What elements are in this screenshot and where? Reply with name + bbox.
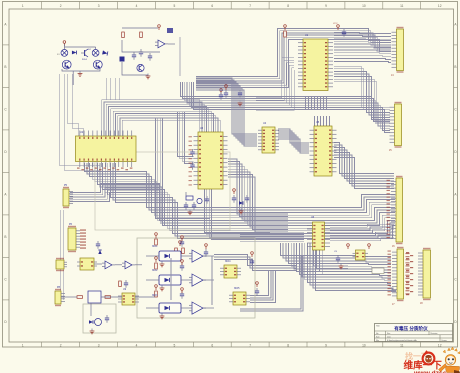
wire bus U3 bottom to central band [205,189,270,239]
connector J5 (right) [390,102,402,148]
group box around opto rows [137,238,255,318]
IC U2 pin labels below [77,168,132,171]
svg-text:3: 3 [98,343,100,347]
U3 left pin name labels [189,136,192,185]
driver row after relay K1 (gates G1 G2) [94,241,142,269]
svg-text:ISO4: ISO4 [225,260,231,263]
wire bus U5 right pins east then south to J6 top pins [334,143,394,189]
svg-text:8: 8 [287,4,289,8]
crystal Y1 with caps [184,192,209,215]
wire bus U6 left pins west [240,232,304,242]
opto U11 [229,292,250,305]
wire bus opto row outputs east joining J7 band [214,255,296,271]
connector P5 (left, upper) [63,187,73,208]
component reference text [57,34,320,297]
wire bus band y77-87 corner up at x277-298 over U1 top into J4 fan [196,29,391,88]
connector J7 (right lower) [388,247,404,301]
small part U12 (near J7) [353,250,369,260]
svg-text:Drawn: Drawn [442,340,447,342]
opto U10 [220,265,241,278]
wire bus U3 right lower pins east then south to central band [228,159,288,232]
wire bus from connector P5 east joining central band [70,183,160,201]
svg-text:9: 9 [325,343,327,347]
wire bus U6 right pins east to J6 bottom pins [330,224,394,241]
power marks above U1 [333,23,346,37]
watermark weiku logo [404,347,460,373]
wire bus band down to U3 left pins [177,112,193,164]
analog cluster B (opamp U8A, R3 R4, C1-C3, Q3) [120,25,176,79]
reset circuit parts [232,189,249,214]
svg-text:有毒压 分质阶仪: 有毒压 分质阶仪 [394,325,428,332]
wire bus U11 outputs east then north [250,271,275,302]
IC U3 (tall, center-left) [194,132,228,189]
svg-text:9014: 9014 [82,59,88,61]
group box around U3 sub-circuit [95,152,230,230]
wire bus from analog cluster down below U2 east [60,74,100,170]
svg-text:Size: Size [376,337,380,339]
IC U1 (top, large) [298,39,333,91]
wire bus U1 left lower pins jog west then down to band [256,58,294,110]
svg-text:6: 6 [211,4,213,8]
wire from cluster B output down [179,37,181,76]
svg-text:8: 8 [287,343,289,347]
wire bus U4 right to U5 left [278,129,309,153]
svg-text:VCC: VCC [333,23,338,25]
connector P8 (bottom left) [55,289,65,306]
wire bus U2 bottom and band east to central band into J6 [84,163,395,239]
relay K1 [77,258,97,270]
bottom-left amp circuit (U13, D5, R7 R8) [61,280,155,334]
svg-text:ISO3: ISO3 [152,294,158,297]
svg-text:4: 4 [136,4,138,8]
svg-text:ISO5: ISO5 [234,287,240,290]
decoupling parts near U6 [250,244,371,296]
svg-text:5: 5 [174,343,176,347]
wire bus from U2 top pins to U3 top (horizontal band y 98-122) [102,100,221,136]
svg-text:B: B [454,65,456,69]
svg-text:3: 3 [98,4,100,8]
svg-text:B: B [454,235,456,239]
svg-text:E:\backup\pressure\sch\main.dd: E:\backup\pressure\sch\main.ddb [387,340,418,342]
wire bus band down into U5 top [315,116,330,126]
svg-text:ISO2: ISO2 [152,269,158,272]
opto-isolator row 2 (opto, diode, inverter) [146,257,214,291]
svg-text:Date: Date [387,336,391,339]
svg-text:ISO1: ISO1 [152,245,158,248]
wire left vertical pair bottom-left area [60,210,64,300]
svg-text:B: B [4,235,6,239]
svg-text:11: 11 [400,343,404,347]
wire bus from analog cluster down to U2 top-left [68,74,84,136]
IC U9 (bottom left yellow) [118,293,139,305]
svg-text:B: B [4,65,6,69]
svg-text:Revision: Revision [431,333,438,335]
connector J4 (top right) [392,27,404,73]
connector J6 (right middle) [387,176,403,244]
svg-text:10: 10 [362,4,366,8]
analog cluster A (lamps B1 B2, diodes, Q1 Q2 transistors) [57,41,108,85]
value box 38k2 [372,268,384,274]
J8 red pin labels [406,252,413,295]
connector P7 (left small) [56,258,67,271]
svg-text:10: 10 [362,343,366,347]
IC U6 (lower center-right) [307,222,330,250]
wire bus U1 lower-right pins staircase down to J5 upper pins [334,66,390,123]
svg-text:9: 9 [325,4,327,8]
svg-text:2: 2 [60,4,62,8]
wire bus U6 bottom pins south then east [314,250,348,274]
svg-text:1: 1 [22,343,24,347]
wire gate cluster verticals [171,256,212,305]
svg-text:4: 4 [136,343,138,347]
caps near top middle [220,85,242,106]
title block [375,324,453,343]
wire bus from U6 down-right corner [240,255,303,311]
small part above U3 right [219,89,223,100]
IC U4 (small, center) [258,127,279,153]
svg-text:1: 1 [22,4,24,8]
IC U2 (wide, left-center) [76,131,137,168]
wire bus central band south then east to connector J7 [280,243,395,292]
wire bus band y76-91 east then fan down into U4 left pins [196,78,257,146]
svg-text:7: 7 [249,343,251,347]
svg-text:Rev.: Rev. [387,333,391,335]
svg-text:11: 11 [400,4,404,8]
svg-text:5: 5 [174,4,176,8]
wire bus band y77-87 west corner down joining y98-112 band east under U1 into J5 [180,82,390,133]
opto-isolator row 1 (opto, diode, inverter) [146,233,214,267]
pullup resistors above opto row [175,241,209,257]
group box around bottom-left amp [83,304,116,333]
caps on U3 left pins [190,149,194,170]
svg-text:7: 7 [249,4,251,8]
P6 red pin marks [80,230,86,249]
svg-text:6: 6 [211,343,213,347]
svg-text:12: 12 [438,343,442,347]
connector J8 (right lower outer) [418,248,431,300]
opto-isolator row 3 (opto, diode, inverter) [146,285,214,319]
resistor R9 above U1 left corner [284,25,287,37]
wire bus U1 bottom pins into band [306,96,327,109]
svg-text:File: File [376,340,379,342]
connector P6 (left, with red pins) [68,226,80,252]
svg-text:12: 12 [438,4,442,8]
wire bus U1 right to connector J4 [334,33,391,63]
wire bus upper band down at x155-164 to central band [155,118,210,226]
IC U5 (center-right) [310,126,337,176]
wire bus band extension from analog cluster B down to band [106,78,120,100]
connector reference labels [389,74,423,306]
svg-text:2: 2 [60,343,62,347]
